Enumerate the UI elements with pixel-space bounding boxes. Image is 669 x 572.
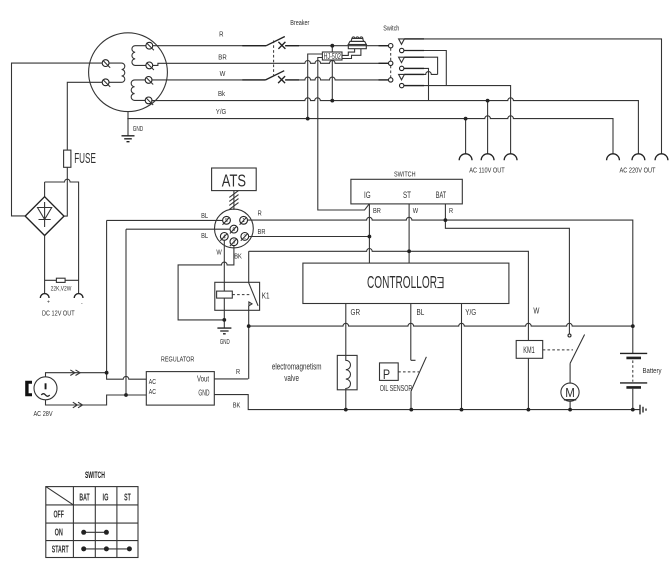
svg-text:R: R: [236, 368, 240, 376]
svg-text:AC 28V: AC 28V: [33, 411, 53, 419]
svg-text:R: R: [449, 207, 453, 215]
svg-text:ST: ST: [124, 492, 131, 503]
svg-text:3: 3: [233, 240, 236, 246]
svg-text:M: M: [565, 386, 575, 401]
svg-text:Y/G: Y/G: [216, 108, 226, 116]
svg-text:IG: IG: [103, 492, 109, 503]
svg-text:R: R: [219, 31, 223, 39]
svg-text:IG: IG: [364, 190, 371, 200]
svg-text:REGULATOR: REGULATOR: [161, 356, 195, 364]
svg-text:GR: GR: [351, 307, 361, 317]
svg-text:START: START: [52, 544, 69, 555]
svg-text:BL: BL: [201, 213, 208, 221]
svg-text:BR: BR: [373, 207, 381, 215]
svg-text:6: 6: [233, 227, 236, 233]
svg-text:OFF: OFF: [54, 509, 64, 520]
svg-text:BR: BR: [218, 54, 226, 62]
svg-text:GND: GND: [133, 125, 144, 133]
svg-text:4: 4: [223, 234, 226, 240]
svg-text:P: P: [383, 367, 390, 383]
svg-text:BK: BK: [234, 253, 242, 261]
svg-text:+: +: [47, 300, 50, 306]
svg-text:ST: ST: [403, 190, 411, 200]
svg-text:R: R: [258, 210, 262, 218]
svg-text:BAT: BAT: [79, 492, 89, 503]
svg-text:ATS: ATS: [222, 172, 246, 192]
svg-text:SWITCH: SWITCH: [85, 469, 105, 480]
svg-text:AC: AC: [149, 378, 157, 386]
svg-text:BR: BR: [258, 228, 266, 236]
svg-text:CONTROLLOR: CONTROLLOR: [367, 273, 437, 293]
svg-text:W: W: [220, 70, 226, 78]
svg-text:Bk: Bk: [218, 90, 226, 98]
svg-text:GND: GND: [220, 339, 230, 346]
svg-text:Y/G: Y/G: [465, 307, 476, 317]
svg-text:W: W: [533, 306, 540, 316]
svg-text:BAT: BAT: [436, 189, 447, 200]
svg-text:2: 2: [243, 234, 246, 240]
svg-text:FUSE: FUSE: [74, 151, 96, 167]
svg-text:W: W: [413, 207, 419, 215]
svg-text:AC 220V OUT: AC 220V OUT: [620, 167, 656, 175]
svg-text:OIL SENSOR: OIL SENSOR: [380, 385, 413, 393]
svg-text:22K,V2W: 22K,V2W: [51, 286, 72, 293]
svg-text:W: W: [216, 249, 222, 257]
svg-text:electromagnetism: electromagnetism: [272, 361, 322, 371]
svg-text:Breaker: Breaker: [290, 19, 310, 27]
svg-text:K1: K1: [262, 290, 270, 300]
svg-text:SWITCH: SWITCH: [394, 171, 416, 179]
svg-text:1: 1: [242, 218, 245, 224]
svg-text:AC 110V OUT: AC 110V OUT: [469, 167, 504, 175]
svg-text:HJ-502: HJ-502: [324, 52, 341, 62]
svg-text:GND: GND: [198, 390, 209, 398]
svg-text:valve: valve: [284, 373, 299, 383]
svg-text:BL: BL: [417, 307, 425, 317]
svg-text:Battery: Battery: [643, 367, 663, 375]
svg-text:ON: ON: [55, 527, 63, 538]
svg-text:BL: BL: [201, 232, 208, 240]
svg-text:DC 12V OUT: DC 12V OUT: [42, 310, 75, 318]
svg-text:AC: AC: [149, 388, 157, 396]
svg-text:BK: BK: [233, 402, 241, 410]
svg-text:Switch: Switch: [383, 25, 399, 33]
svg-text:KM1: KM1: [523, 345, 534, 356]
svg-text:Vout: Vout: [197, 376, 209, 384]
svg-text:5: 5: [225, 218, 228, 224]
